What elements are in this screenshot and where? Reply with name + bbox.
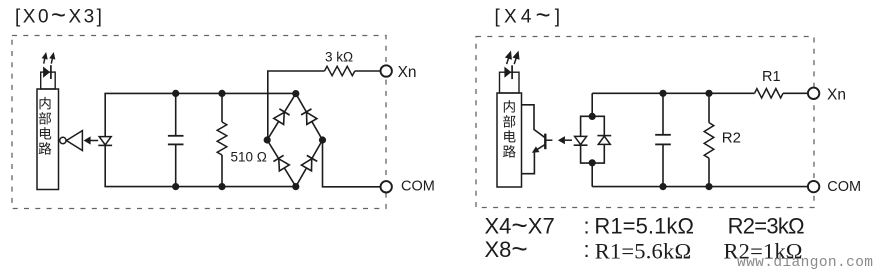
svg-text:Xn: Xn — [827, 86, 846, 103]
terminal Xn — [381, 65, 392, 76]
resistor R1 — [755, 89, 784, 98]
receiver inverter bubble — [60, 137, 66, 143]
junction dot — [659, 183, 666, 190]
diode bridge arms — [267, 94, 322, 187]
junction dot — [218, 90, 225, 97]
wire Xn branch — [268, 71, 381, 140]
optocoupler LED D — [99, 137, 111, 145]
node dot bridge right — [319, 136, 326, 143]
wire top rail — [592, 92, 808, 94]
junction dot — [218, 183, 225, 190]
resistor 3kΩ — [325, 66, 355, 75]
node dot bridge top — [292, 90, 299, 97]
indicator light arrows — [41, 51, 50, 64]
dashed enclosure right panel — [476, 37, 814, 208]
bridge diode (bottom-right) — [301, 155, 317, 171]
input indicator LED — [41, 72, 56, 89]
wire bottom rail — [592, 186, 808, 188]
svg-text:3 kΩ: 3 kΩ — [325, 50, 353, 65]
node dot pair top — [589, 113, 596, 120]
svg-text:COM: COM — [401, 178, 435, 194]
svg-text:COM: COM — [827, 179, 861, 195]
svg-text:X8~: X8~ — [485, 233, 528, 264]
wire top rail — [104, 92, 295, 94]
opto LED (down) — [575, 136, 587, 144]
bridge diode (bottom-left) — [273, 155, 289, 171]
svg-text:R1: R1 — [762, 69, 781, 85]
terminal COM — [808, 181, 819, 192]
junction dot — [705, 183, 712, 190]
svg-text:R1=5.6kΩ: R1=5.6kΩ — [595, 238, 692, 263]
phototransistor base bar — [544, 134, 546, 150]
wire opto-LED pair stubs — [591, 93, 593, 186]
svg-text:510 Ω: 510 Ω — [231, 150, 267, 165]
capacitor C — [662, 93, 664, 186]
terminal Xn — [808, 88, 819, 99]
dashed enclosure left panel — [12, 36, 386, 209]
resistor R2 — [708, 93, 710, 186]
internal circuit box (内部电路) — [37, 89, 59, 190]
junction dot — [172, 90, 179, 97]
wire COM branch — [323, 140, 381, 187]
resistor 510Ω — [221, 93, 223, 186]
svg-text::: : — [584, 214, 590, 239]
bridge diode (right-top) — [301, 109, 317, 125]
svg-text::: : — [584, 237, 590, 262]
input indicator LED — [500, 72, 520, 93]
light arrow to phototransistor — [546, 139, 552, 141]
node dot pair bottom — [589, 159, 596, 166]
internal circuit box (内部电路) — [497, 93, 522, 187]
indicator light arrows — [503, 49, 514, 65]
phototransistor collector lead — [522, 105, 545, 138]
wire opto-LED pair frame — [581, 116, 605, 163]
light arrow to receiver — [90, 140, 98, 142]
phototransistor emitter lead — [522, 145, 546, 174]
svg-text:Xn: Xn — [398, 64, 417, 81]
junction dot — [659, 90, 666, 97]
svg-text:R2: R2 — [722, 129, 741, 146]
svg-text:R2=3kΩ: R2=3kΩ — [728, 214, 805, 239]
junction dot — [705, 90, 712, 97]
receiver inverter triangle — [66, 131, 82, 151]
opto LED (up) — [597, 135, 611, 137]
node dot bridge left — [264, 136, 271, 143]
capacitor C — [175, 93, 177, 186]
svg-text:R1=5.1kΩ: R1=5.1kΩ — [594, 214, 694, 239]
bridge diode (left-top) — [274, 109, 290, 125]
wire optocoupler LED branch — [104, 93, 106, 186]
wire bottom rail — [104, 186, 295, 188]
svg-text:www.diangon.com: www.diangon.com — [737, 255, 873, 271]
junction dot — [172, 183, 179, 190]
terminal COM — [381, 181, 392, 192]
node dot bridge bottom — [292, 183, 299, 190]
